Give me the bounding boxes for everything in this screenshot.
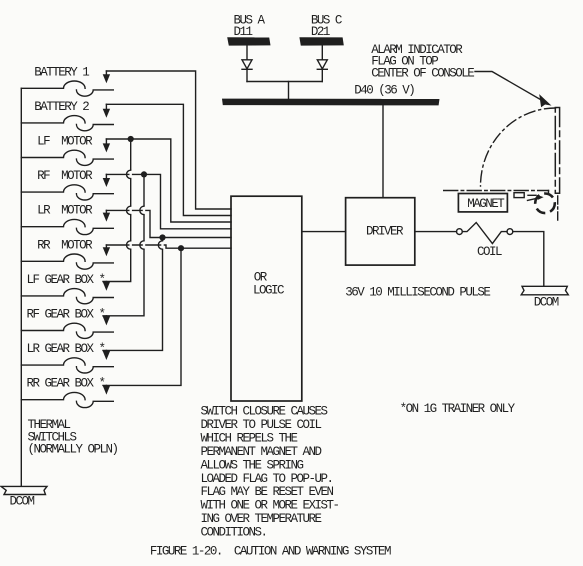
svg-text:FIGURE 1-20. CAUTION AND WARN: FIGURE 1-20. CAUTION AND WARNING SYSTEM xyxy=(150,544,391,558)
svg-text:PERMANENT MAGNET AND: PERMANENT MAGNET AND xyxy=(201,445,322,459)
arrow at LF GEAR BOX switch xyxy=(103,282,110,291)
arrow at RR GEAR BOX switch xyxy=(103,385,110,394)
svg-text:RR GEAR BOX *: RR GEAR BOX * xyxy=(27,377,105,391)
junction node LR motor / gear box xyxy=(159,234,165,240)
thermal switch LF MOTOR xyxy=(21,150,113,165)
thermal switch RR GEAR BOX xyxy=(21,392,113,407)
thermal switch LR MOTOR xyxy=(21,219,113,234)
wire crossover hop xyxy=(127,170,132,179)
note 36V pulse xyxy=(345,285,490,299)
svg-text:LOADED FLAG TO POP-UP.: LOADED FLAG TO POP-UP. xyxy=(201,472,333,486)
junction node RR motor / gear box xyxy=(178,245,184,251)
label BUS C / D21 xyxy=(311,14,342,39)
junction node RF motor / gear box xyxy=(141,171,147,177)
wire D40 bus to DRIVER xyxy=(382,105,384,197)
thermal switch LR GEAR BOX xyxy=(21,358,113,373)
label LR GEAR BOX xyxy=(27,342,105,356)
arrow at RR MOTOR switch xyxy=(103,245,110,256)
thermal switch RF GEAR BOX xyxy=(21,323,113,338)
wire diode outputs join xyxy=(247,82,322,99)
svg-text:FLAG MAY BE RESET EVEN: FLAG MAY BE RESET EVEN xyxy=(201,485,334,499)
bus bar BUS C xyxy=(299,37,343,45)
wire RF MOTOR to OR logic input xyxy=(106,174,231,228)
wire LF GEAR BOX tap up to shared node xyxy=(103,139,131,282)
svg-text:OR: OR xyxy=(254,271,268,285)
svg-text:MAGNET: MAGNET xyxy=(467,197,505,211)
flag rotation arc xyxy=(481,108,556,186)
label BUS A / D11 xyxy=(234,14,266,39)
svg-text:*ON 1G TRAINER ONLY: *ON 1G TRAINER ONLY xyxy=(400,402,516,416)
wire OR logic to DRIVER xyxy=(302,231,346,233)
svg-text:ING OVER TEMPERATURE: ING OVER TEMPERATURE xyxy=(201,512,322,526)
label RF MOTOR xyxy=(37,169,93,183)
wire LF MOTOR to OR logic input xyxy=(106,139,231,222)
svg-text:LR MOTOR: LR MOTOR xyxy=(37,204,93,218)
wire left DCOM bus vertical xyxy=(20,88,22,486)
svg-text:DRIVER TO PULSE COIL: DRIVER TO PULSE COIL xyxy=(201,418,322,432)
note thermal switches xyxy=(28,418,118,457)
note alarm indicator flag xyxy=(371,43,474,81)
bus bar D40 36V xyxy=(222,99,440,106)
svg-text:36V 10 MILLISECOND PULSE: 36V 10 MILLISECOND PULSE xyxy=(345,285,490,299)
diode D21 xyxy=(317,46,327,82)
svg-text:D21: D21 xyxy=(311,25,330,39)
arrow flag to pivot xyxy=(528,195,544,201)
label LF GEAR BOX xyxy=(27,273,105,287)
wire coil to DCOM xyxy=(513,232,544,286)
svg-text:(NORMALLY OPLN): (NORMALLY OPLN) xyxy=(28,442,118,456)
svg-text:BATTERY 2: BATTERY 2 xyxy=(34,100,89,114)
svg-text:RF GEAR BOX *: RF GEAR BOX * xyxy=(27,308,105,322)
arrow at LR MOTOR switch xyxy=(103,210,110,221)
svg-text:CONDITIONS.: CONDITIONS. xyxy=(201,526,267,540)
svg-text:WITH ONE OR MORE EXIST-: WITH ONE OR MORE EXIST- xyxy=(201,499,339,513)
arrow at LF MOTOR switch xyxy=(103,139,110,152)
label BATTERY 2 xyxy=(34,100,89,114)
svg-text:LF GEAR BOX *: LF GEAR BOX * xyxy=(27,273,105,287)
svg-text:WHICH REPELS THE: WHICH REPELS THE xyxy=(201,431,298,445)
arrow at RF MOTOR switch xyxy=(103,174,110,187)
wire LR MOTOR to OR logic input xyxy=(106,210,231,237)
block DRIVER xyxy=(346,198,415,265)
svg-text:LR GEAR BOX *: LR GEAR BOX * xyxy=(27,342,105,356)
console surface line xyxy=(444,191,549,195)
thermal switch BATTERY 2 xyxy=(21,116,113,131)
label RR MOTOR xyxy=(37,238,93,252)
svg-text:D11: D11 xyxy=(234,25,253,39)
svg-text:COIL: COIL xyxy=(477,245,502,259)
svg-text:SWITCH CLOSURE CAUSES: SWITCH CLOSURE CAUSES xyxy=(201,405,328,419)
wire DRIVER to coil xyxy=(415,231,457,233)
arrow at BATTERY 2 switch xyxy=(103,104,110,118)
wire crossover hop xyxy=(158,241,163,250)
coil terminal (right) xyxy=(507,229,513,235)
ground DCOM (right) xyxy=(521,286,568,309)
svg-text:LF MOTOR: LF MOTOR xyxy=(37,135,93,149)
ground DCOM (left) xyxy=(1,486,47,508)
coil COIL xyxy=(462,223,507,260)
flag latch segment xyxy=(514,193,536,198)
coil terminal (left) xyxy=(457,229,463,235)
wire RF GEAR BOX tap up to shared node xyxy=(103,174,144,315)
caption figure title xyxy=(150,544,391,558)
wire crossover hop xyxy=(127,206,132,215)
thermal switch BATTERY 1 xyxy=(21,81,113,96)
svg-text:RF MOTOR: RF MOTOR xyxy=(37,169,93,183)
arrow note to flag xyxy=(475,72,552,108)
arrow at LR GEAR BOX switch xyxy=(103,350,110,360)
thermal switch RR MOTOR xyxy=(21,254,113,269)
diode D11 xyxy=(242,46,252,82)
flag (popped up, dashed) xyxy=(555,108,559,194)
wire BATTERY 2 to OR logic input xyxy=(106,104,231,215)
note 1G trainer only xyxy=(400,402,516,416)
svg-text:BATTERY 1: BATTERY 1 xyxy=(34,65,89,79)
wire crossover hop xyxy=(127,241,132,250)
flag centerline below pivot xyxy=(557,196,559,221)
svg-text:LOGIC: LOGIC xyxy=(253,284,284,298)
arrow at RF GEAR BOX switch xyxy=(103,316,110,326)
svg-text:RR MOTOR: RR MOTOR xyxy=(37,238,93,252)
label LF MOTOR xyxy=(37,135,93,149)
svg-text:DCOM: DCOM xyxy=(534,295,559,309)
svg-text:ALLOWS THE SPRING: ALLOWS THE SPRING xyxy=(201,458,304,472)
label D40 (36 V) xyxy=(354,84,414,98)
wire crossover hop xyxy=(140,241,145,250)
label RF GEAR BOX xyxy=(27,308,105,322)
label LR MOTOR xyxy=(37,204,93,218)
note switch closure paragraph xyxy=(201,405,339,540)
label BATTERY 1 xyxy=(34,65,89,79)
thermal switch RF MOTOR xyxy=(21,185,113,200)
wire crossover hop xyxy=(140,206,145,215)
pivot circle xyxy=(535,194,555,214)
wire RR GEAR BOX tap up to shared node xyxy=(103,248,181,385)
junction node LF motor / gear box xyxy=(128,136,134,142)
arrow at BATTERY 1 switch xyxy=(103,71,110,83)
wire BATTERY 1 to OR logic input xyxy=(106,71,231,209)
svg-text:D40 (36 V): D40 (36 V) xyxy=(354,84,414,98)
label RR GEAR BOX xyxy=(27,377,105,391)
wire LR GEAR BOX tap up to shared node xyxy=(103,238,163,351)
wire RR MOTOR to OR logic input xyxy=(106,245,231,248)
block MAGNET xyxy=(458,194,507,212)
block OR LOGIC xyxy=(231,196,302,401)
svg-text:DCOM: DCOM xyxy=(10,495,35,509)
svg-text:DRIVER: DRIVER xyxy=(366,225,404,239)
thermal switch LF GEAR BOX xyxy=(21,289,113,304)
bus bar BUS A xyxy=(227,37,270,45)
svg-text:CENTER OF CONSOLE: CENTER OF CONSOLE xyxy=(371,66,474,80)
